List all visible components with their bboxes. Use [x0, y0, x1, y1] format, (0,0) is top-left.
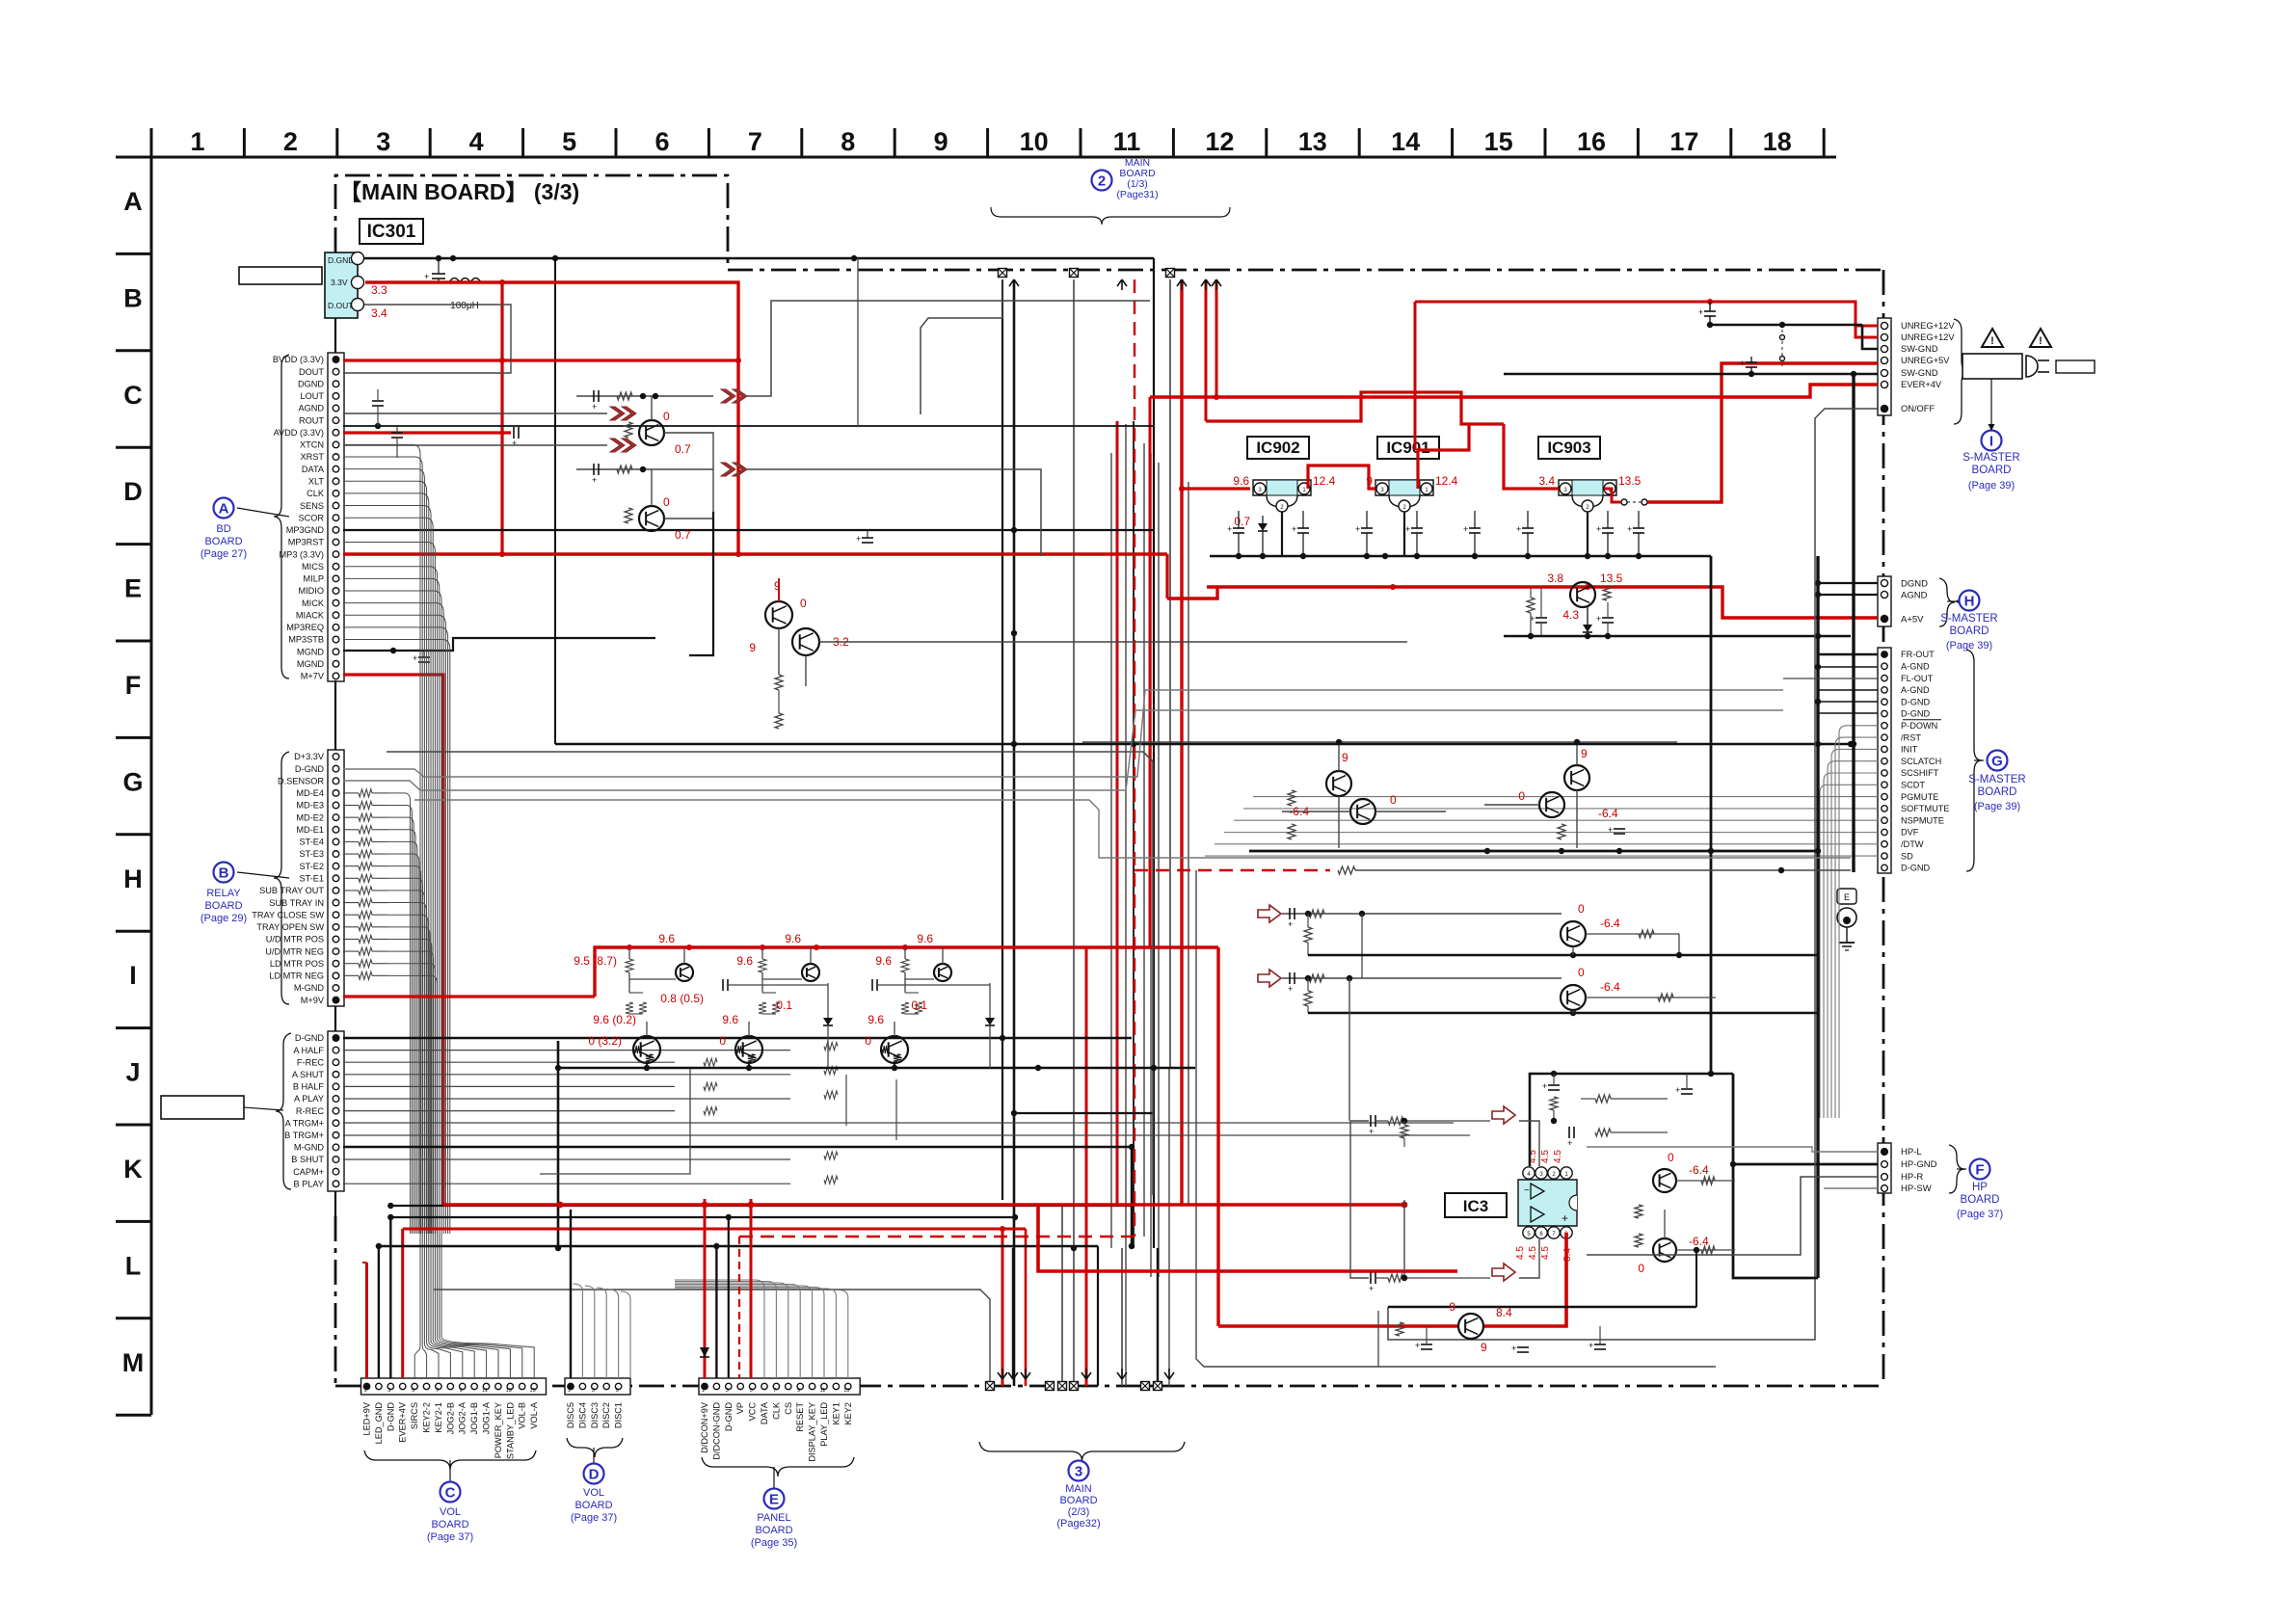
svg-text:I: I	[129, 961, 137, 990]
wire black upper loop	[921, 279, 1002, 414]
ruler left	[150, 157, 153, 1415]
wire trunk gray x1114	[1073, 279, 1075, 1386]
svg-text:A-GND: A-GND	[1901, 662, 1930, 672]
svg-text:0: 0	[663, 495, 670, 509]
wire gray to xbox1027	[434, 1290, 990, 1386]
svg-text:LD MTR NEG: LD MTR NEG	[269, 971, 324, 981]
wire gray base risers	[845, 1075, 847, 1126]
svg-text:+: +	[1511, 1344, 1516, 1353]
wire red x1264 drop	[1216, 947, 1219, 1326]
svg-text:D-GND: D-GND	[386, 1402, 395, 1431]
svg-text:M-GND: M-GND	[294, 1143, 324, 1153]
wire fan bottom D	[573, 1284, 582, 1378]
wire gray J loop	[540, 1069, 690, 1174]
svg-text:13: 13	[506, 1388, 512, 1394]
resistor net IC3 r2	[1595, 1129, 1611, 1136]
wire J MGND	[343, 1147, 1132, 1248]
wire black right loop	[1818, 378, 1878, 380]
node C VOL BOARD	[449, 1460, 451, 1481]
wire x1775 drop	[1710, 556, 1713, 1074]
svg-text:BOARD: BOARD	[1972, 465, 2012, 476]
zener 4.3	[1583, 625, 1592, 632]
svg-text:ST-E2: ST-E2	[299, 862, 324, 871]
hatch arrow mid1	[721, 389, 735, 403]
svg-text:D-GND: D-GND	[724, 1402, 734, 1431]
AC adapter	[1962, 354, 2022, 379]
wire gray right bundle2	[1253, 796, 1878, 798]
svg-text:9.6: 9.6	[868, 1013, 884, 1026]
svg-text:9: 9	[934, 127, 948, 156]
svg-text:DISPLAY_KEY: DISPLAY_KEY	[808, 1402, 817, 1462]
svg-text:SCDT: SCDT	[1901, 781, 1925, 790]
svg-text:(Page 37): (Page 37)	[427, 1531, 473, 1543]
top border junctions	[999, 269, 1007, 278]
svg-text:0: 0	[800, 597, 807, 610]
svg-text:2: 2	[283, 127, 298, 156]
svg-text:4.3: 4.3	[1562, 608, 1579, 622]
transistor Q E-row reg	[1570, 582, 1595, 607]
svg-text:MD-E1: MD-E1	[296, 825, 324, 835]
svg-text:MP3STB: MP3STB	[288, 635, 324, 645]
resistor C row upper	[617, 392, 632, 400]
svg-text:9: 9	[1449, 1300, 1455, 1314]
svg-text:S-MASTER: S-MASTER	[1962, 452, 2019, 464]
svg-text:(Page31): (Page31)	[1116, 189, 1158, 200]
svg-text:L: L	[125, 1251, 142, 1280]
svg-text:M+9V: M+9V	[301, 996, 325, 1005]
svg-text:HP-R: HP-R	[1901, 1172, 1923, 1183]
svg-text:A: A	[219, 501, 229, 518]
wire gray DOUT	[343, 305, 511, 373]
svg-text:11: 11	[482, 1388, 488, 1394]
svg-text:(Page 27): (Page 27)	[200, 548, 247, 560]
wire red VCC drop	[750, 1199, 753, 1378]
wire IC3 out1	[1676, 1180, 1735, 1182]
svg-text:MD-E4: MD-E4	[296, 788, 324, 798]
resistors B rows	[359, 789, 372, 797]
resistor net IC3 r1	[1595, 1095, 1611, 1103]
block arrow I1	[1258, 970, 1281, 987]
svg-text:3: 3	[376, 127, 390, 156]
wire IC3 out2	[1676, 1249, 1735, 1251]
wire red reg feed	[1182, 487, 1250, 490]
node E PANEL BOARD	[773, 1467, 775, 1488]
svg-text:15: 15	[530, 1388, 536, 1394]
svg-text:3.8: 3.8	[1547, 572, 1563, 585]
svg-text:C: C	[123, 381, 143, 410]
wire H1b	[1361, 914, 1363, 978]
svg-text:XTCN: XTCN	[300, 440, 324, 450]
svg-text:8: 8	[841, 127, 855, 156]
wire trunk gray x1187	[1143, 443, 1145, 1237]
wire red LED9V	[365, 1263, 368, 1378]
svg-text:A SHUT: A SHUT	[292, 1070, 325, 1079]
svg-text:K: K	[123, 1155, 143, 1184]
connector E brace	[702, 1457, 854, 1477]
connector J brace	[276, 1033, 291, 1189]
svg-text:2: 2	[1098, 173, 1106, 190]
svg-text:+: +	[1698, 307, 1703, 317]
svg-text:4.5: 4.5	[1540, 1246, 1551, 1260]
wire gray bus y726	[343, 690, 1783, 777]
svg-text:9.6: 9.6	[875, 954, 892, 968]
wires J rows	[343, 1050, 790, 1051]
wire G fr-out	[1818, 653, 1878, 655]
connector C vol board	[361, 1378, 547, 1395]
wire bottom black x1051	[1012, 1248, 1014, 1379]
svg-text:BOARD: BOARD	[1978, 786, 2017, 798]
svg-text:MILP: MILP	[304, 574, 324, 584]
wire red IC901 out	[1418, 424, 1469, 489]
wire bottom red x1127	[1085, 947, 1088, 1386]
svg-text:LED+9V: LED+9V	[362, 1401, 372, 1435]
wire ROUT row	[343, 444, 607, 446]
svg-text:-6.4: -6.4	[1598, 807, 1618, 820]
transistor Q G4	[1539, 792, 1564, 817]
wire fan bottom E	[675, 1280, 764, 1378]
wire red BVDD row	[343, 359, 738, 361]
svg-text:4.5: 4.5	[1553, 1150, 1563, 1163]
wire stair upper	[747, 301, 1150, 396]
wire E pair top	[778, 578, 780, 601]
svg-text:BOARD: BOARD	[1950, 625, 1989, 637]
svg-text:9.5 (8.7): 9.5 (8.7)	[574, 954, 617, 968]
svg-text:DISC2: DISC2	[601, 1402, 611, 1428]
wire gray right bundle	[1839, 726, 1878, 1118]
svg-text:0: 0	[663, 410, 670, 423]
wire trunk red-dash x1177	[1134, 279, 1135, 1237]
svg-text:SCOR: SCOR	[298, 513, 324, 522]
wire black x740	[689, 512, 713, 655]
svg-text:HP: HP	[1972, 1182, 1988, 1193]
hatch arrow mid2	[721, 463, 735, 476]
regulator ground bus	[1210, 555, 1711, 558]
svg-text:F: F	[1975, 1162, 1984, 1179]
wire H gnd links	[1818, 582, 1878, 584]
svg-text:9: 9	[749, 641, 756, 654]
svg-text:LD MTR POS: LD MTR POS	[270, 959, 324, 969]
wire bottom gray x1213	[1168, 1068, 1170, 1386]
svg-text:BOARD: BOARD	[431, 1519, 468, 1530]
wire trunk red x1226	[1180, 279, 1183, 1205]
svg-text:!: !	[1990, 335, 1994, 347]
connector D brace	[567, 1438, 623, 1457]
warning triangle 2	[2030, 329, 2051, 347]
svg-text:CAPM+: CAPM+	[293, 1167, 324, 1177]
svg-text:MAIN: MAIN	[1065, 1483, 1092, 1495]
svg-text:+: +	[592, 475, 597, 485]
svg-text:0: 0	[1638, 1262, 1644, 1275]
svg-text:0: 0	[1578, 902, 1585, 916]
svg-text:9.6: 9.6	[785, 932, 801, 945]
svg-text:DISC4: DISC4	[577, 1402, 587, 1428]
svg-text:MIACK: MIACK	[296, 610, 325, 620]
block arrow H1	[1258, 905, 1281, 922]
svg-text:9: 9	[1481, 1341, 1487, 1354]
svg-text:+: +	[1596, 614, 1601, 624]
svg-text:JOG2-A: JOG2-A	[458, 1401, 467, 1434]
svg-text:+: +	[1567, 1138, 1572, 1148]
svg-text:MD-E2: MD-E2	[296, 812, 324, 822]
connector G pins	[1878, 648, 1891, 873]
connector F brace	[1949, 1145, 1964, 1193]
svg-text:DISC3: DISC3	[590, 1402, 600, 1428]
svg-text:FR-OUT: FR-OUT	[1901, 650, 1935, 659]
node F HP BOARD	[1970, 1159, 1990, 1180]
svg-text:8.4: 8.4	[1496, 1306, 1512, 1319]
node D VOL BOARD	[593, 1448, 595, 1463]
svg-text:5: 5	[750, 1388, 753, 1394]
wire fan bottom C	[414, 1234, 420, 1378]
svg-text:5: 5	[562, 127, 576, 156]
svg-text:+: +	[1562, 1211, 1568, 1225]
wire red dash H row	[1135, 869, 1330, 871]
IC301 callout box	[239, 267, 322, 284]
op-amp IC3 label	[1445, 1193, 1507, 1217]
black bus y337	[1710, 324, 1862, 327]
svg-text:HP-L: HP-L	[1901, 1147, 1922, 1157]
wire black LEDGND	[378, 1246, 380, 1378]
svg-text:11: 11	[1113, 127, 1141, 156]
wire red unreg12	[1415, 302, 1878, 337]
svg-text:(2/3): (2/3)	[1068, 1506, 1090, 1518]
wire M+7V red	[343, 675, 443, 1205]
svg-text:KEY2: KEY2	[843, 1402, 853, 1425]
svg-text:D-GND: D-GND	[295, 764, 324, 774]
svg-text:D.GND: D.GND	[328, 255, 354, 265]
wire G q links	[1338, 742, 1340, 771]
transistor Q I-row 3	[934, 964, 951, 981]
warning triangle 1	[1982, 329, 2003, 347]
wire trunk black x1176	[1133, 421, 1135, 1248]
svg-text:B: B	[219, 865, 229, 882]
svg-text:NSPMUTE: NSPMUTE	[1901, 815, 1944, 825]
svg-text:18: 18	[1763, 127, 1792, 156]
svg-text:BD: BD	[216, 523, 230, 535]
svg-text:(Page 37): (Page 37)	[571, 1512, 617, 1524]
svg-text:D-GND: D-GND	[1901, 709, 1930, 719]
svg-text:B: B	[123, 283, 143, 312]
wire bottom reg bus	[1378, 1366, 1716, 1368]
svg-text:SW-GND: SW-GND	[1901, 344, 1938, 354]
svg-text:D-GND: D-GND	[295, 1033, 324, 1043]
wire red M+9V	[343, 995, 595, 998]
circled 2 main board 1/3	[1092, 171, 1112, 191]
transistor Q E-row 1	[765, 601, 792, 628]
cap Q links	[722, 979, 724, 991]
capacitor LOUT	[372, 400, 384, 402]
transistor Q I1	[1561, 985, 1586, 1010]
svg-text:DISC5: DISC5	[566, 1402, 575, 1428]
wire IC3 hp feeds	[1587, 1147, 1878, 1152]
svg-text:LOUT: LOUT	[300, 391, 324, 401]
svg-text:D.OUT: D.OUT	[328, 301, 353, 310]
wire trunk red x1262	[1215, 279, 1218, 397]
svg-text:D/DCON+9V: D/DCON+9V	[700, 1401, 709, 1453]
wire red MP3 long	[343, 552, 1167, 555]
svg-text:3: 3	[1075, 1464, 1082, 1480]
svg-text:4: 4	[469, 127, 484, 156]
voltage regulator IC901	[1377, 437, 1439, 459]
caps Erow	[1535, 617, 1547, 619]
svg-text:+: +	[1288, 919, 1293, 929]
svg-text:KEY2-2: KEY2-2	[422, 1402, 432, 1433]
wire fan bundle A	[343, 444, 420, 1234]
svg-text:7: 7	[436, 1388, 439, 1394]
wire trunk red x1159	[1116, 421, 1119, 1205]
wire H1 emitter bus	[1308, 954, 1818, 957]
node G S-MASTER BOARD	[1988, 751, 2008, 771]
svg-text:9.6: 9.6	[722, 1013, 738, 1026]
svg-text:BOARD: BOARD	[574, 1500, 612, 1511]
border frame ruler top	[151, 156, 1836, 159]
svg-text:MP3 (3.3V): MP3 (3.3V)	[280, 549, 324, 559]
svg-text:IC902: IC902	[1256, 439, 1299, 457]
svg-text:17: 17	[1669, 127, 1698, 156]
node A BD BOARD	[237, 508, 289, 517]
svg-text:C: C	[445, 1485, 456, 1502]
wire fan bundle B	[387, 793, 411, 1234]
svg-text:VOL: VOL	[583, 1487, 604, 1499]
svg-text:ST-E1: ST-E1	[299, 874, 324, 884]
svg-text:SUB TRAY OUT: SUB TRAY OUT	[259, 886, 324, 895]
wire stair lower	[747, 469, 1041, 556]
bottom border junctions	[986, 1382, 995, 1391]
wire red AVDD row	[343, 431, 511, 434]
svg-text:+: +	[1596, 524, 1601, 534]
svg-text:FL-OUT: FL-OUT	[1901, 674, 1934, 683]
svg-text:5: 5	[412, 1388, 414, 1394]
svg-text:3: 3	[387, 1388, 390, 1394]
capacitors under regulators	[1233, 527, 1244, 529]
svg-text:【MAIN BOARD】 (3/3): 【MAIN BOARD】 (3/3)	[339, 179, 579, 204]
svg-text:DATA: DATA	[302, 465, 325, 474]
svg-text:INIT: INIT	[1901, 745, 1918, 755]
transistor Q bottom reg	[1458, 1314, 1483, 1339]
wire x1401 feed	[1348, 978, 1350, 1121]
connector I pins	[1878, 318, 1891, 415]
svg-text:B SHUT: B SHUT	[291, 1155, 324, 1164]
svg-text:0.7: 0.7	[675, 442, 691, 456]
svg-text:(Page 29): (Page 29)	[200, 913, 247, 924]
svg-text:+: +	[424, 272, 429, 281]
svg-text:CLK: CLK	[771, 1401, 781, 1420]
wire trunk black x1923	[1852, 374, 1855, 872]
transistor Q G1	[1326, 771, 1351, 796]
svg-text:SUB TRAY IN: SUB TRAY IN	[269, 898, 324, 908]
svg-text:BOARD: BOARD	[1961, 1194, 2000, 1206]
resistor Erow	[1527, 598, 1535, 613]
svg-text:+: +	[1463, 524, 1468, 534]
svg-text:4.5: 4.5	[1540, 1150, 1551, 1163]
svg-text:DGND: DGND	[298, 379, 324, 388]
svg-text:100μH: 100μH	[450, 301, 479, 311]
svg-text:4.5: 4.5	[1515, 1246, 1526, 1260]
diode J area 1	[823, 1018, 833, 1025]
svg-text:4.5: 4.5	[1528, 1246, 1538, 1260]
wire ON/OFF	[1388, 409, 1878, 1340]
svg-text:5: 5	[616, 1388, 619, 1394]
capacitor sw area	[1746, 361, 1757, 363]
svg-text:BOARD: BOARD	[204, 536, 242, 547]
wire black y1251	[390, 1205, 1132, 1207]
svg-text:A TRGM+: A TRGM+	[285, 1118, 324, 1128]
wire red EVER4V	[401, 1229, 404, 1378]
svg-text:PANEL: PANEL	[757, 1512, 790, 1524]
svg-text:KEY1: KEY1	[831, 1402, 841, 1425]
wire red x521	[500, 282, 503, 554]
svg-text:+: +	[1675, 1085, 1680, 1095]
svg-text:3: 3	[592, 1388, 595, 1394]
wire trunk red x1193	[1149, 397, 1152, 947]
wire left column x348	[334, 318, 336, 353]
svg-text:D-GND: D-GND	[1901, 697, 1930, 706]
wire emitter bus J	[558, 1067, 1195, 1070]
wire J BTRGM	[343, 1134, 1470, 1136]
wire G emitter bus	[1249, 850, 1818, 853]
svg-text:11: 11	[820, 1388, 826, 1394]
resistors G	[1288, 790, 1295, 806]
wire red Erow	[1207, 587, 1878, 618]
svg-text:JOG2-B: JOG2-B	[445, 1402, 455, 1434]
wire red y621 jog	[1167, 587, 1217, 599]
IC902 diode	[1258, 523, 1268, 531]
svg-text:(Page 37): (Page 37)	[1957, 1209, 2003, 1220]
svg-text:+: +	[1292, 524, 1296, 534]
wire C row upper	[576, 395, 713, 397]
block arrow IC3 in2	[1492, 1264, 1515, 1281]
svg-text:M-GND: M-GND	[294, 983, 324, 993]
svg-text:0.7: 0.7	[675, 528, 691, 542]
wire IC3 bottom bus	[1388, 1306, 1696, 1308]
svg-text:+: +	[1369, 1127, 1374, 1136]
connector B brace	[274, 752, 289, 1004]
svg-text:13.5: 13.5	[1600, 572, 1623, 585]
wire black G bus	[555, 743, 1851, 745]
wire IC3 top feed	[1530, 1074, 1733, 1166]
svg-text:9.6: 9.6	[736, 954, 753, 968]
capacitor ROUT	[391, 432, 403, 434]
svg-text:MP3REQ: MP3REQ	[286, 623, 324, 632]
wire trunk black x1040	[1001, 279, 1003, 1200]
wire black x579	[557, 1041, 560, 1248]
svg-text:0: 0	[1518, 789, 1525, 803]
svg-text:SW-GND: SW-GND	[1901, 368, 1938, 378]
svg-text:1: 1	[702, 1388, 705, 1394]
wire J ATRGM	[343, 1122, 1454, 1124]
voltage regulator IC902	[1247, 437, 1309, 459]
wire C row lower	[576, 468, 713, 470]
svg-text:13.5: 13.5	[1618, 474, 1642, 488]
svg-text:IC3: IC3	[1463, 1197, 1488, 1215]
svg-text:+: +	[1627, 524, 1632, 534]
wire bottom black x1201	[1157, 1248, 1159, 1386]
svg-text:9: 9	[797, 1388, 800, 1394]
wire AGND row	[343, 425, 1154, 427]
wire IC3 in1	[1350, 1120, 1369, 1122]
svg-text:F: F	[125, 671, 142, 700]
svg-text:0: 0	[1390, 793, 1397, 807]
svg-text:I: I	[1989, 434, 1993, 450]
svg-text:9.6 (0.2): 9.6 (0.2)	[593, 1013, 636, 1026]
svg-text:DGND: DGND	[1901, 579, 1928, 590]
svg-text:MIDIO: MIDIO	[298, 586, 324, 596]
svg-text:+: +	[1542, 1081, 1547, 1091]
diode E pin1	[704, 1199, 707, 1378]
svg-text:IC901: IC901	[1386, 439, 1429, 457]
svg-text:AGND: AGND	[1901, 591, 1928, 601]
svg-text:15: 15	[1484, 127, 1513, 156]
